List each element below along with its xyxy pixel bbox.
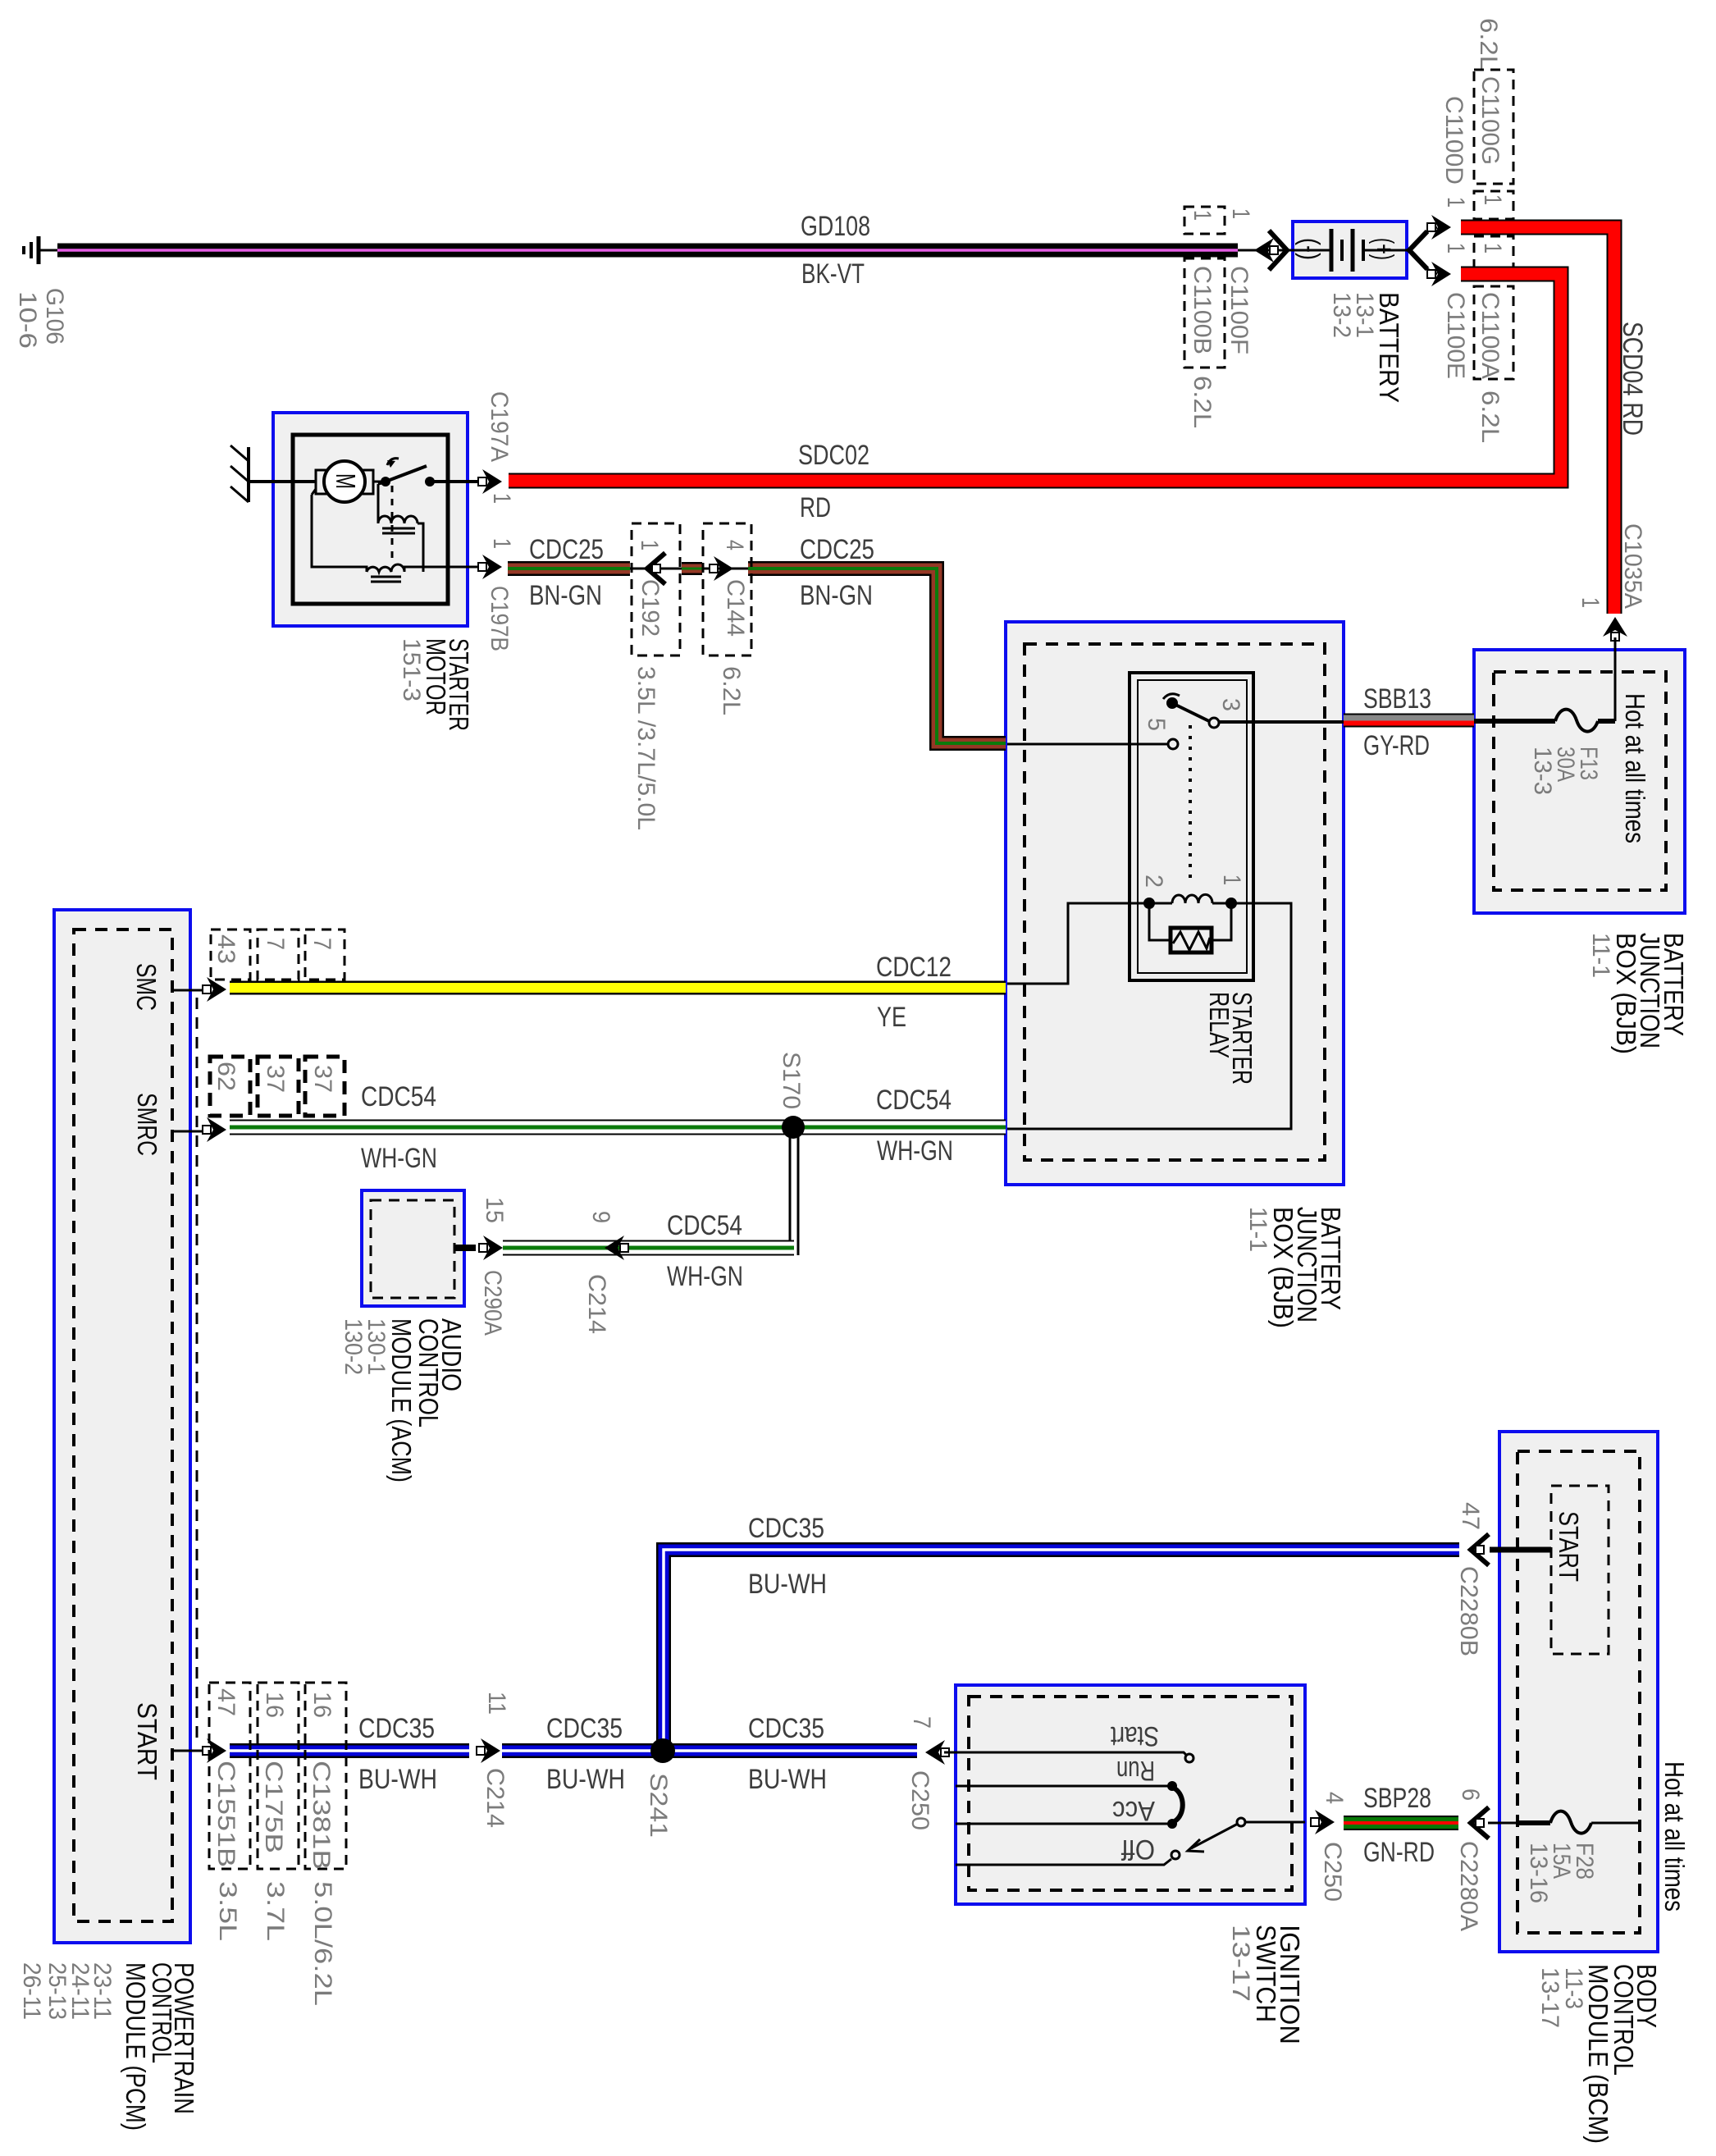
svg-text:MODULE (ACM): MODULE (ACM)	[386, 1318, 417, 1482]
battery junction box (fuse F13)	[1474, 650, 1685, 913]
svg-text:CDC12: CDC12	[876, 952, 952, 983]
connector C197A	[482, 469, 502, 494]
box C1100A	[1474, 286, 1513, 379]
svg-text:CDC25: CDC25	[529, 534, 604, 565]
connector C290A arrow	[483, 1236, 503, 1260]
svg-text:CDC25: CDC25	[800, 534, 874, 565]
svg-text:C192: C192	[637, 579, 664, 637]
ignition Off line	[956, 1859, 1171, 1865]
ACM dashed box	[371, 1200, 454, 1298]
ignition pin4 line	[1245, 1821, 1305, 1824]
svg-text:WH-GN: WH-GN	[667, 1261, 743, 1292]
svg-text:9: 9	[587, 1211, 614, 1223]
svg-text:C2280B: C2280B	[1455, 1566, 1482, 1656]
svg-text:SWITCH: SWITCH	[1251, 1925, 1281, 2022]
wire SCD04 RD	[1461, 227, 1614, 614]
svg-text:1: 1	[1442, 197, 1469, 208]
solenoid link dashed	[391, 486, 394, 560]
relay link dotted	[1189, 725, 1192, 879]
svg-text:130-2: 130-2	[340, 1318, 367, 1375]
starter motor inner box	[293, 435, 448, 604]
box pin1 C1100G	[1474, 191, 1513, 219]
svg-text:11-1: 11-1	[1587, 933, 1614, 978]
wire CDC25 segment 1	[508, 561, 630, 576]
connector C1035A	[1603, 617, 1627, 637]
svg-text:S241: S241	[645, 1773, 672, 1838]
svg-text:C1100G: C1100G	[1476, 76, 1504, 165]
svg-text:BOX (BJB): BOX (BJB)	[1611, 933, 1641, 1054]
PCM SMRC stub	[172, 1131, 207, 1133]
svg-text:26-11: 26-11	[18, 1962, 45, 2020]
wire CDC35 riser	[664, 1550, 1459, 1751]
svg-text:11-1: 11-1	[1244, 1207, 1271, 1252]
svg-text:151-3: 151-3	[398, 638, 425, 701]
connector C192 arrow	[647, 553, 665, 584]
svg-text:C214: C214	[583, 1274, 610, 1334]
ignition Acc line	[956, 1823, 1168, 1825]
svg-text:1: 1	[636, 540, 663, 550]
svg-text:CDC35: CDC35	[546, 1713, 623, 1744]
relay resistor	[1149, 903, 1171, 940]
svg-text:47: 47	[212, 1688, 240, 1716]
ignition switch dashed box	[969, 1697, 1292, 1890]
svg-text:M: M	[331, 473, 361, 489]
svg-text:CDC35: CDC35	[358, 1713, 435, 1744]
svg-text:4: 4	[721, 540, 748, 550]
battery box	[1293, 222, 1407, 278]
pin boxes CDC35	[209, 1683, 250, 1869]
svg-text:C1035A: C1035A	[1619, 523, 1646, 609]
ignition Run-Acc bridge	[1175, 1788, 1183, 1821]
svg-text:7: 7	[308, 938, 335, 950]
battery terminals	[1293, 249, 1330, 252]
ignition Start line	[956, 1752, 1187, 1756]
svg-text:C175B: C175B	[260, 1761, 287, 1853]
svg-text:7: 7	[908, 1716, 935, 1729]
svg-text:3.5L: 3.5L	[214, 1881, 241, 1941]
BCM dashed box	[1517, 1451, 1640, 1933]
svg-text:16: 16	[308, 1692, 335, 1718]
svg-text:C1551B: C1551B	[212, 1761, 240, 1867]
connector C144 box	[703, 523, 751, 655]
svg-text:C1381B: C1381B	[308, 1761, 335, 1870]
svg-text:43: 43	[212, 934, 240, 964]
svg-text:BU-WH: BU-WH	[748, 1764, 827, 1795]
svg-text:(+): (+)	[1369, 238, 1399, 260]
wire ground to motor	[249, 480, 316, 483]
S170 drop lines	[789, 1127, 792, 1240]
solenoid hold coil	[367, 564, 404, 572]
svg-text:10-6: 10-6	[14, 291, 41, 349]
body control module box	[1499, 1432, 1658, 1952]
svg-text:1: 1	[488, 493, 515, 504]
BCM START dashed box	[1551, 1486, 1609, 1654]
svg-text:6: 6	[1457, 1788, 1484, 1801]
svg-text:SMRC: SMRC	[132, 1093, 162, 1156]
junction S241	[650, 1738, 675, 1763]
relay pin2 wire to CDC12	[1007, 903, 1149, 984]
svg-text:S170: S170	[778, 1052, 805, 1109]
wire CDC25 link line	[630, 568, 748, 570]
svg-text:C1100E: C1100E	[1442, 292, 1469, 379]
svg-text:1: 1	[1479, 243, 1506, 254]
svg-text:3.5L /3.7L/5.0L: 3.5L /3.7L/5.0L	[632, 666, 659, 830]
ground G106	[40, 249, 57, 252]
svg-text:RELAY: RELAY	[1204, 992, 1235, 1058]
motor brush block	[316, 470, 373, 494]
svg-text:4: 4	[1321, 1792, 1348, 1804]
svg-text:SDC02: SDC02	[798, 440, 869, 471]
svg-text:SMC: SMC	[131, 963, 162, 1011]
svg-text:13-16: 13-16	[1525, 1843, 1552, 1903]
svg-text:C250: C250	[1319, 1842, 1346, 1902]
wire CDC35 lower	[230, 1743, 469, 1758]
svg-text:CDC35: CDC35	[748, 1713, 824, 1744]
svg-text:C197A: C197A	[486, 391, 513, 462]
svg-text:C1100A: C1100A	[1476, 292, 1504, 379]
pin boxes CDC12	[211, 930, 250, 980]
junction S170	[782, 1116, 805, 1139]
svg-text:6.2L: 6.2L	[718, 666, 745, 715]
connector C1100F/C1100B	[1238, 249, 1293, 252]
powertrain control module box	[54, 910, 190, 1943]
svg-text:GD108: GD108	[801, 211, 870, 242]
svg-text:13-3: 13-3	[1529, 747, 1556, 795]
svg-text:37: 37	[309, 1065, 336, 1093]
relay coil	[1143, 898, 1155, 909]
svg-text:Start: Start	[1111, 1720, 1159, 1752]
svg-text:C197B: C197B	[486, 586, 513, 651]
svg-text:C2280A: C2280A	[1455, 1841, 1482, 1931]
wire CDC35 mid	[502, 1743, 917, 1758]
connector C2280B arrow	[1471, 1534, 1489, 1565]
svg-text:37: 37	[262, 1065, 289, 1093]
relay armature	[1166, 697, 1178, 709]
svg-text:5.0L/6.2L: 5.0L/6.2L	[309, 1881, 336, 2006]
svg-text:1: 1	[1218, 875, 1245, 885]
svg-text:CDC35: CDC35	[748, 1513, 824, 1544]
svg-text:3.7L: 3.7L	[262, 1881, 289, 1941]
svg-text:25-13: 25-13	[43, 1962, 71, 2020]
svg-text:BN-GN: BN-GN	[800, 580, 873, 611]
ignition switch arm	[1191, 1824, 1238, 1848]
connector C250 pin4 arrow	[1315, 1810, 1335, 1834]
svg-text:Run: Run	[1116, 1755, 1155, 1786]
svg-text:C250: C250	[906, 1770, 933, 1830]
svg-text:1: 1	[1189, 210, 1216, 221]
svg-text:Acc: Acc	[1112, 1795, 1155, 1826]
wire SDC02 RD	[509, 274, 1561, 481]
svg-text:BU-WH: BU-WH	[358, 1764, 437, 1795]
svg-text:YE: YE	[877, 1002, 906, 1033]
PCM SMC stub	[172, 989, 207, 992]
fuse F13	[1474, 719, 1555, 724]
svg-text:(-): (-)	[1295, 238, 1326, 260]
svg-text:6.2L: 6.2L	[1476, 391, 1504, 443]
ground at starter	[247, 447, 250, 502]
svg-text:13-17: 13-17	[1227, 1925, 1254, 2002]
svg-text:3: 3	[1217, 698, 1244, 711]
svg-text:G106: G106	[41, 288, 68, 345]
wire CDC12 YE	[230, 981, 1006, 995]
fuse BJB dashed box	[1494, 672, 1666, 890]
svg-text:SBB13: SBB13	[1363, 683, 1431, 715]
wire CDC54 WH-GN	[230, 1120, 1006, 1135]
svg-text:BOX (BJB): BOX (BJB)	[1268, 1207, 1298, 1328]
wire CDC54 lower	[503, 1240, 794, 1256]
wire CDC25 segment 2	[748, 569, 1006, 743]
svg-text:CDC54: CDC54	[667, 1210, 742, 1241]
battery junction box (relay)	[1006, 622, 1344, 1185]
svg-text:GY-RD: GY-RD	[1363, 730, 1430, 761]
svg-text:BN-GN: BN-GN	[529, 580, 602, 611]
svg-text:WH-GN: WH-GN	[361, 1143, 437, 1174]
svg-text:SCD04 RD: SCD04 RD	[1617, 322, 1648, 436]
svg-text:1: 1	[1577, 597, 1604, 608]
wire GD108 BK-VT	[57, 244, 1238, 258]
connector C214 arrow upper	[481, 1738, 500, 1763]
starter motor box	[273, 413, 468, 626]
svg-text:START: START	[1554, 1511, 1584, 1582]
box pin 1 C1100B	[1184, 207, 1225, 234]
svg-text:C1100F: C1100F	[1225, 266, 1253, 354]
PCM START stub	[172, 1750, 207, 1752]
svg-text:1: 1	[488, 538, 515, 549]
fuse F28	[1488, 1822, 1518, 1825]
audio control module box	[362, 1190, 464, 1306]
svg-text:BU-WH: BU-WH	[546, 1764, 625, 1795]
solenoid pull-in coil	[378, 516, 418, 523]
relay pin 3 line	[1219, 720, 1344, 724]
battery positive split	[1409, 231, 1427, 269]
BCM start stub	[1490, 1547, 1551, 1553]
PCM connector dashed line	[196, 998, 199, 1742]
starter relay outer box	[1130, 673, 1253, 980]
connector C197B	[482, 555, 502, 579]
svg-text:7: 7	[262, 938, 289, 950]
relay BJB dashed box	[1025, 644, 1325, 1160]
pin boxes CDC54	[210, 1057, 250, 1116]
connector C2280A arrow	[1471, 1807, 1489, 1839]
svg-text:GN-RD: GN-RD	[1363, 1837, 1435, 1868]
ignition switch box	[956, 1685, 1305, 1904]
svg-text:Hot at all times: Hot at all times	[1659, 1761, 1690, 1912]
svg-text:C144: C144	[722, 579, 749, 637]
wire CDC25 stub	[682, 562, 702, 575]
svg-text:SBP28: SBP28	[1363, 1783, 1431, 1814]
svg-text:1: 1	[1227, 208, 1254, 219]
relay pin1 wire to CDC54	[1007, 903, 1291, 1129]
svg-text:CDC54: CDC54	[876, 1085, 952, 1116]
connector C214 arrow lower	[605, 1236, 624, 1260]
svg-text:Hot at all times: Hot at all times	[1620, 693, 1650, 843]
svg-text:BU-WH: BU-WH	[748, 1569, 827, 1600]
PCM dashed box	[74, 930, 172, 1921]
svg-text:47: 47	[1457, 1502, 1484, 1530]
starter relay inner box	[1138, 680, 1247, 973]
svg-text:C214: C214	[481, 1768, 509, 1828]
svg-text:C1100D: C1100D	[1440, 96, 1467, 185]
box C1100G	[1474, 70, 1513, 184]
motor M	[324, 461, 365, 502]
svg-text:BK-VT: BK-VT	[801, 258, 865, 290]
svg-text:CONTROL: CONTROL	[413, 1318, 444, 1427]
svg-text:RD: RD	[800, 492, 831, 523]
svg-text:1: 1	[1442, 243, 1469, 254]
svg-text:62: 62	[212, 1062, 240, 1091]
svg-text:C290A: C290A	[479, 1270, 506, 1336]
svg-text:16: 16	[261, 1692, 288, 1718]
starter switch contact	[373, 481, 386, 483]
svg-text:C1100B: C1100B	[1189, 266, 1216, 354]
svg-text:13-17: 13-17	[1536, 1967, 1563, 2028]
svg-text:START: START	[132, 1702, 162, 1780]
svg-text:15: 15	[481, 1197, 508, 1223]
connector C250 pin7 arrow	[925, 1740, 945, 1765]
connector C192 box	[632, 523, 680, 655]
svg-text:6.2L: 6.2L	[1475, 18, 1502, 71]
connector C144 arrow	[714, 556, 733, 581]
svg-text:MODULE (PCM): MODULE (PCM)	[121, 1962, 151, 2131]
svg-text:11: 11	[483, 1692, 510, 1715]
wire SBB13 GY-RD	[1344, 714, 1474, 728]
ACM stub	[454, 1245, 476, 1251]
svg-text:Off: Off	[1121, 1834, 1155, 1865]
svg-text:5: 5	[1143, 718, 1170, 731]
box C1100B	[1184, 258, 1225, 368]
box pin1 C1100A	[1474, 236, 1513, 271]
ignition Run line	[956, 1785, 1168, 1788]
wire SBP28 GN-RD	[1344, 1816, 1458, 1830]
relay pin 5 line	[1007, 743, 1168, 746]
svg-text:2: 2	[1140, 875, 1167, 888]
svg-text:CDC54: CDC54	[361, 1081, 436, 1112]
svg-text:6.2L: 6.2L	[1189, 376, 1216, 428]
svg-text:1: 1	[1479, 194, 1506, 205]
svg-text:13-2: 13-2	[1328, 292, 1355, 338]
svg-text:WH-GN: WH-GN	[877, 1135, 953, 1167]
